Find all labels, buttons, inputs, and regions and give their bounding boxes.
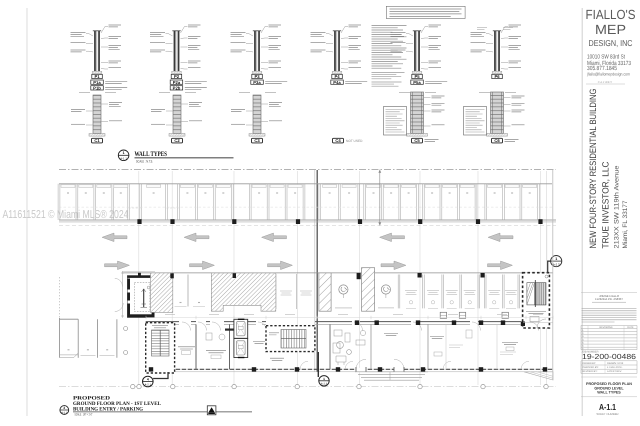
wall detail P3 xyxy=(231,25,288,85)
svg-text:C.A.# 30877: C.A.# 30877 xyxy=(598,81,613,84)
svg-text:P4a: P4a xyxy=(333,80,341,85)
svg-text:SCALE : 1/8" = 1'-0": SCALE : 1/8" = 1'-0" xyxy=(75,413,93,417)
sidebar divider xyxy=(581,8,583,416)
wall detail P2 xyxy=(150,25,207,91)
grid bubbles xyxy=(131,384,135,388)
extra equipment right wing xyxy=(333,324,516,369)
svg-text:A11611521 © Miami MLS® 2024: A11611521 © Miami MLS® 2024 xyxy=(3,209,129,221)
svg-text:P5a: P5a xyxy=(413,80,421,85)
middle stalls with handicap xyxy=(275,274,277,309)
svg-text:P3: P3 xyxy=(254,74,260,79)
wall types heading xyxy=(118,150,129,161)
svg-text:CHECKED BY:: CHECKED BY: xyxy=(583,366,599,369)
svg-text:P1a: P1a xyxy=(93,80,101,85)
svg-text:A-1.1: A-1.1 xyxy=(599,402,616,412)
columns second row xyxy=(418,273,422,278)
svg-text:C5: C5 xyxy=(414,138,420,143)
svg-text:WALL TYPES: WALL TYPES xyxy=(135,151,168,158)
disclaimer paragraph xyxy=(582,309,637,323)
svg-text:C3: C3 xyxy=(254,138,260,143)
gate house dashed room xyxy=(521,273,550,328)
svg-text:A-2.3: A-2.3 xyxy=(321,382,328,385)
svg-text:C6: C6 xyxy=(494,138,500,143)
grid lines xyxy=(138,171,140,385)
svg-text:1: 1 xyxy=(323,377,325,381)
wall detail P6 xyxy=(471,25,522,79)
wall detail P4 xyxy=(311,25,368,85)
plan right edge line xyxy=(552,170,554,380)
dimension dash-dot line xyxy=(59,386,556,388)
svg-text:P2b: P2b xyxy=(173,86,181,91)
hatched planter 2 xyxy=(362,268,375,312)
svg-text:REVISED BY:: REVISED BY: xyxy=(583,370,598,373)
hatch area B with notch xyxy=(211,273,275,311)
handicap stall 2 xyxy=(378,285,394,308)
svg-text:P4: P4 xyxy=(334,74,340,79)
EV charger boxes xyxy=(440,312,446,318)
top parking row xyxy=(59,183,552,185)
sheet title xyxy=(581,376,637,378)
hatch area A xyxy=(151,273,173,313)
svg-text:REVISIONS: REVISIONS xyxy=(599,326,612,329)
hatched planter 1 xyxy=(319,273,331,311)
svg-text:C2: C2 xyxy=(174,138,180,143)
exterior/interior labels P6 xyxy=(477,28,487,30)
svg-text:DESIGN, INC: DESIGN, INC xyxy=(589,38,633,48)
vertical dimension line at grid 5 xyxy=(378,170,381,226)
svg-text:P2: P2 xyxy=(174,74,180,79)
drive aisle arrows row 2 (right) xyxy=(105,261,130,270)
left parking stalls xyxy=(59,277,61,318)
svg-text:2: 2 xyxy=(63,406,65,410)
svg-text:A-1.1: A-1.1 xyxy=(120,156,127,160)
section marker gate house xyxy=(547,225,562,273)
dashed line across stalls xyxy=(59,206,552,208)
svg-text:213XX SW 119th Avenue: 213XX SW 119th Avenue xyxy=(613,165,620,248)
svg-text:DATE: DATE xyxy=(627,326,634,329)
small stalls between hatches xyxy=(187,275,189,307)
svg-text:1: 1 xyxy=(123,151,125,155)
svg-text:P2a: P2a xyxy=(173,80,181,85)
heavy section line xyxy=(316,170,318,372)
svg-text:FIALLO'S: FIALLO'S xyxy=(586,7,636,22)
svg-text:19-200-00486: 19-200-00486 xyxy=(582,352,636,361)
machine / equipment rooms right wing xyxy=(329,324,331,369)
svg-text:WALL TYPES: WALL TYPES xyxy=(597,391,621,395)
wall detail C6 xyxy=(464,92,525,143)
svg-text:A-2.3: A-2.3 xyxy=(553,262,560,266)
plan title xyxy=(60,406,69,415)
fire pump / gen room xyxy=(206,324,230,369)
note text block left of P5 xyxy=(372,26,407,69)
svg-text:J. FIALLO P.E.: J. FIALLO P.E. xyxy=(607,366,623,369)
svg-text:Miami, FL 33177: Miami, FL 33177 xyxy=(622,200,629,248)
bottom wall door openings xyxy=(356,368,366,373)
svg-text:C4: C4 xyxy=(335,138,341,143)
engineer block xyxy=(581,292,637,294)
svg-text:P6: P6 xyxy=(494,74,500,79)
column at grid xyxy=(357,273,361,279)
svg-text:C1: C1 xyxy=(94,138,100,143)
svg-text:1: 1 xyxy=(555,257,557,261)
svg-text:P5: P5 xyxy=(414,74,420,79)
svg-text:DRAWN: 10/19: DRAWN: 10/19 xyxy=(607,362,624,365)
svg-text:TRUE INVESTOR, LLC: TRUE INVESTOR, LLC xyxy=(601,161,611,248)
info table xyxy=(581,360,637,362)
svg-text:LATEST REV.: LATEST REV. xyxy=(607,370,622,373)
aisle dashed line xyxy=(59,225,556,227)
second row parking stalls right xyxy=(397,275,399,309)
columns along corridor xyxy=(355,320,359,325)
svg-text:P3a: P3a xyxy=(253,80,261,85)
lobby label xyxy=(253,342,265,344)
structural columns top row xyxy=(137,219,141,224)
wall detail C5 xyxy=(384,92,445,143)
wall detail P1 xyxy=(71,25,128,91)
wall detail C1 xyxy=(71,93,122,144)
svg-text:jfiallo@fiallomepdesign.com: jfiallo@fiallomepdesign.com xyxy=(586,71,630,76)
project name (rotated) xyxy=(588,89,629,249)
general note box xyxy=(386,6,465,18)
stair 1 room (dashed) xyxy=(146,323,175,373)
svg-text:DRAWN BY:: DRAWN BY: xyxy=(583,362,597,365)
svg-text:NOT USED: NOT USED xyxy=(346,139,363,143)
garage elevator block xyxy=(115,271,155,318)
svg-text:A-2.1: A-2.1 xyxy=(145,383,152,386)
svg-text:MEP: MEP xyxy=(595,22,626,37)
revisions table xyxy=(581,325,637,327)
right ramp xyxy=(524,372,553,380)
second row top line xyxy=(123,272,554,274)
section marker circle center xyxy=(318,352,329,386)
building bottom wall xyxy=(146,368,553,370)
wall detail P5 xyxy=(391,25,448,85)
dimension string above corridor xyxy=(146,317,553,319)
elevator shafts xyxy=(225,319,248,357)
corridor label xyxy=(270,358,284,360)
svg-text:A-1.1: A-1.1 xyxy=(61,412,68,415)
handicap stall 1 xyxy=(335,285,352,308)
entry steps xyxy=(355,372,428,380)
svg-text:SHEET NUMBER: SHEET NUMBER xyxy=(596,412,618,416)
svg-text:4: 4 xyxy=(147,377,149,381)
wall detail C2 xyxy=(151,93,202,144)
svg-text:SCALE : N.T.S.: SCALE : N.T.S. xyxy=(136,160,153,164)
detail marker circle left xyxy=(143,372,169,387)
svg-text:P1: P1 xyxy=(94,74,100,79)
property dashed line xyxy=(59,169,556,171)
wall detail C3 xyxy=(231,93,282,144)
pump room xyxy=(178,324,196,369)
interior door arcs bottom xyxy=(300,361,529,369)
svg-text:NEW FOUR-STORY RESIDENTIAL BUI: NEW FOUR-STORY RESIDENTIAL BUILDING xyxy=(588,89,598,249)
svg-text:P1b: P1b xyxy=(93,86,101,91)
stair 2 room (dashed) xyxy=(266,326,315,352)
drive aisle arrows row 1 (left) xyxy=(102,233,127,242)
wall detail C4 (not used) xyxy=(333,138,344,143)
corridor top wall xyxy=(146,321,179,323)
sheet left border xyxy=(26,8,28,416)
svg-text:10010 SW 83rd St: 10010 SW 83rd St xyxy=(587,54,625,61)
svg-text:FLORIDA P.E. #58307: FLORIDA P.E. #58307 xyxy=(595,297,623,301)
north arrow xyxy=(207,406,216,415)
